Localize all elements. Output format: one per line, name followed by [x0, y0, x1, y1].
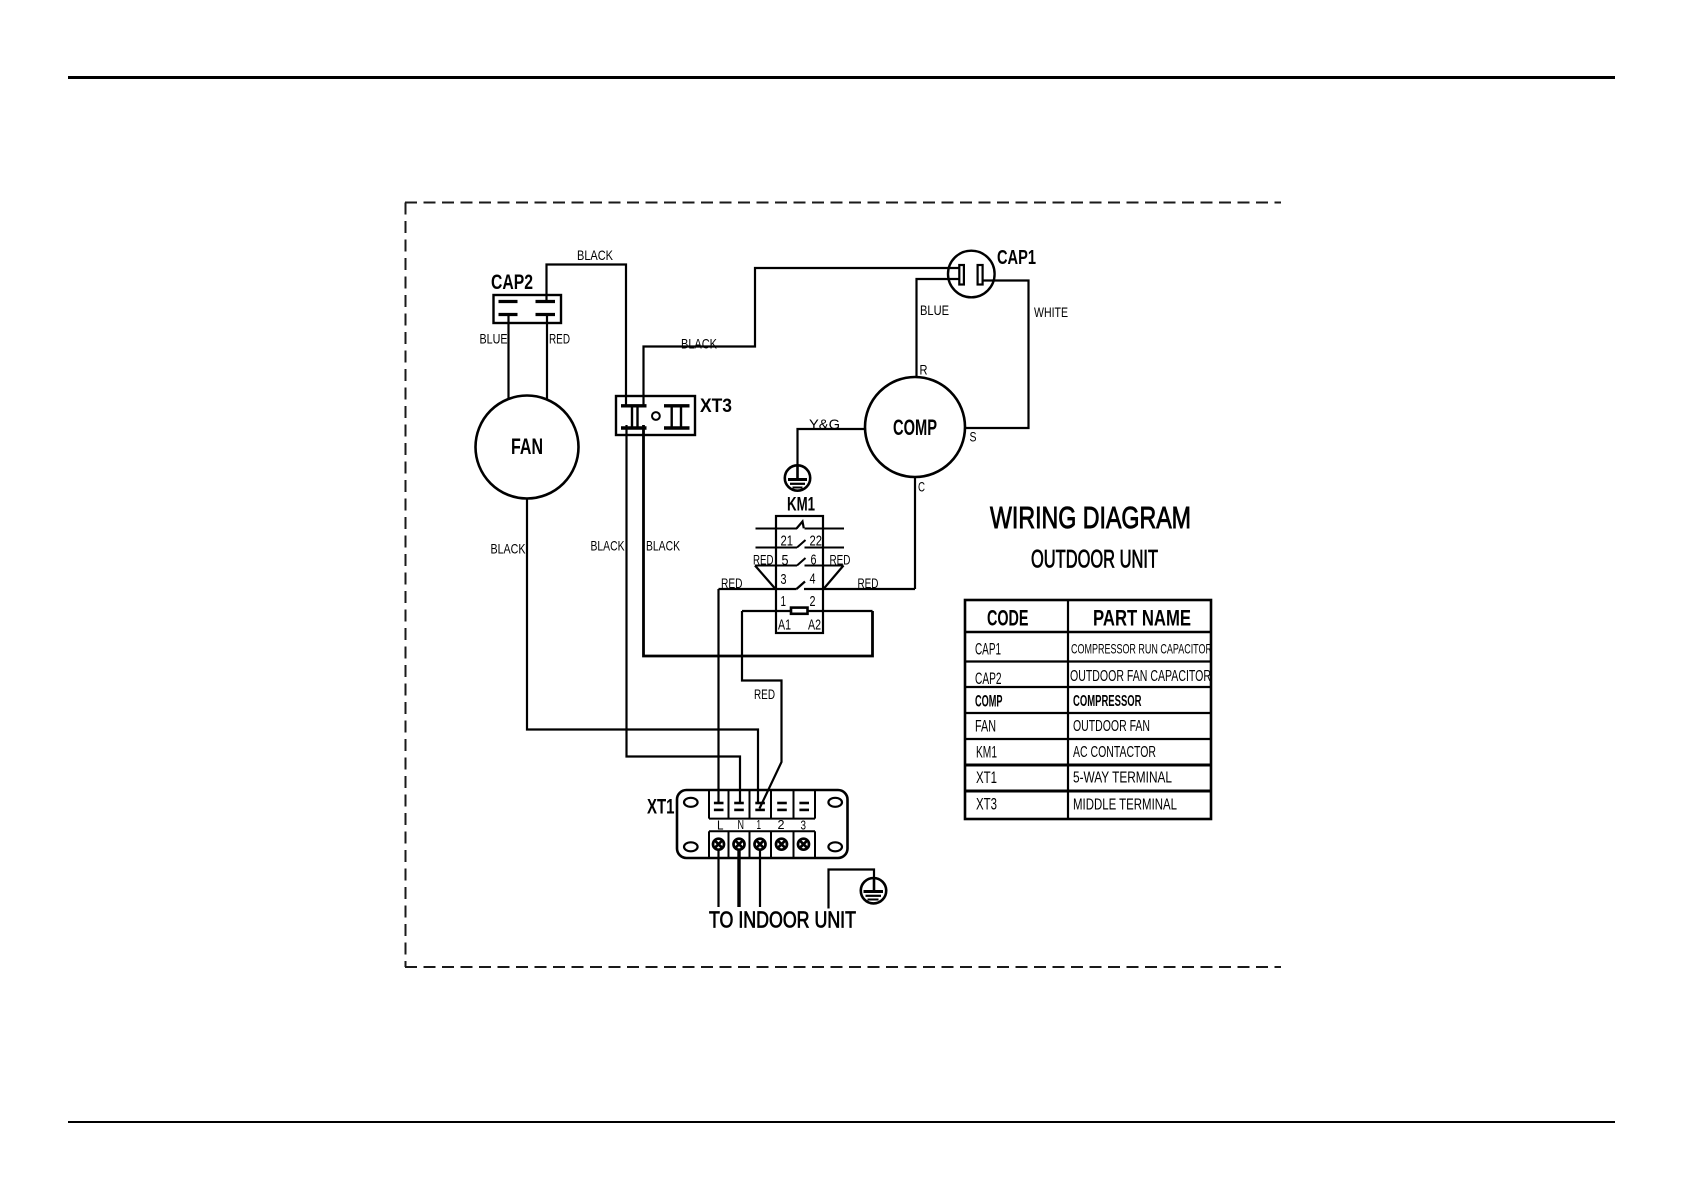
svg-text:BLACK: BLACK: [491, 541, 526, 557]
contactor KM1: [742, 516, 873, 634]
svg-text:XT1: XT1: [976, 768, 997, 787]
bottom cells: [708, 831, 710, 858]
bottom page rule: [68, 1121, 1615, 1123]
svg-text:CAP1: CAP1: [997, 247, 1036, 269]
wire BLACK: CAP2 right terminal up and over to XT3 left terminal: [547, 265, 627, 407]
terminal symbols (double bars) in XT1 cells: [714, 803, 809, 810]
wire BLACK: XT3 right bottom to KM1 coil A2: [644, 425, 873, 656]
screw terminals of XT1: [713, 839, 809, 850]
svg-text:XT3: XT3: [976, 795, 997, 814]
terminal labels L N 1 2 3: [717, 817, 806, 832]
svg-text:21: 21: [781, 533, 794, 550]
svg-text:A2: A2: [808, 618, 821, 634]
capacitor CAP1: [948, 251, 995, 298]
svg-text:BLACK: BLACK: [681, 336, 718, 352]
KM1 body: [776, 516, 823, 633]
svg-text:RED: RED: [830, 553, 851, 568]
svg-text:PART NAME: PART NAME: [1093, 606, 1191, 631]
motor FAN: [476, 396, 579, 499]
svg-text:1: 1: [781, 593, 787, 610]
ground (protective earth, near KM1): [785, 465, 810, 490]
svg-text:N: N: [738, 817, 745, 832]
contact 21-22 (NC, with peak blade): [756, 528, 798, 530]
terminal block XT1: [677, 790, 848, 858]
wire WHITE: CAP1 right terminal down to COMP S: [966, 281, 1029, 429]
svg-text:3: 3: [781, 571, 787, 588]
svg-text:L: L: [717, 817, 724, 832]
svg-text:RED: RED: [858, 576, 879, 591]
svg-text:FAN: FAN: [511, 434, 543, 459]
svg-text:COMPRESSOR RUN CAPACITOR: COMPRESSOR RUN CAPACITOR: [1071, 641, 1212, 657]
wire: down to XT1 terminal L: [717, 589, 719, 804]
svg-text:CAP2: CAP2: [975, 669, 1002, 688]
svg-text:2: 2: [778, 817, 785, 832]
wire: XT1 1 to indoor unit: [759, 851, 761, 908]
svg-text:1: 1: [757, 817, 762, 832]
svg-text:BLACK: BLACK: [577, 247, 614, 263]
svg-text:5-WAY TERMINAL: 5-WAY TERMINAL: [1073, 770, 1172, 787]
svg-text:RED: RED: [549, 331, 570, 347]
ground (indoor cable earth): [861, 878, 886, 903]
wire BLUE: CAP2 left terminal down to FAN: [507, 315, 509, 399]
wire: COMP C down to RED wire: [914, 478, 916, 590]
wire BLACK: XT3 left bottom to XT1 terminal N: [627, 425, 741, 804]
svg-text:MIDDLE TERMINAL: MIDDLE TERMINAL: [1073, 797, 1177, 814]
svg-text:BLACK: BLACK: [591, 538, 625, 554]
wire: diagonal 4 to RED bus: [824, 566, 844, 590]
terminal XT3: [616, 396, 695, 435]
svg-text:BLUE: BLUE: [920, 302, 949, 318]
svg-text:TO INDOOR UNIT: TO INDOOR UNIT: [709, 907, 856, 933]
svg-text:KM1: KM1: [976, 743, 997, 762]
svg-text:BLACK: BLACK: [646, 538, 680, 554]
label strip: [709, 818, 815, 820]
wire Y&G: COMP left to ground: [798, 429, 865, 466]
wire RED: XT1 L up through KM1 contact 1-2 to COMP C: [719, 588, 797, 590]
svg-text:COMP: COMP: [893, 415, 937, 440]
svg-text:KM1: KM1: [787, 495, 815, 516]
svg-text:CAP1: CAP1: [975, 640, 1001, 659]
svg-text:Y&G: Y&G: [809, 416, 840, 432]
contact 3-4: [755, 565, 797, 567]
svg-text:RED: RED: [753, 553, 774, 568]
wire RED: CAP2 right terminal down to FAN: [546, 315, 548, 400]
top page rule: [68, 76, 1615, 79]
svg-text:R: R: [920, 362, 928, 378]
svg-text:CAP2: CAP2: [491, 271, 533, 294]
outdoor unit boundary (dashed): [405, 203, 1281, 968]
capacitor CAP2: [494, 295, 562, 323]
svg-text:RED: RED: [754, 686, 775, 702]
contact 5-6: [756, 547, 798, 549]
svg-text:COMPRESSOR: COMPRESSOR: [1073, 693, 1142, 710]
wire BLUE: CAP1 left terminal down to COMP R: [917, 279, 960, 378]
svg-text:C: C: [918, 479, 925, 495]
svg-text:2: 2: [810, 593, 816, 610]
svg-text:XT1: XT1: [647, 796, 675, 819]
svg-text:S: S: [970, 429, 977, 445]
svg-text:BLUE: BLUE: [480, 331, 508, 347]
svg-text:COMP: COMP: [975, 692, 1003, 711]
svg-text:4: 4: [810, 571, 816, 588]
svg-text:CODE: CODE: [987, 606, 1029, 631]
svg-text:WHITE: WHITE: [1034, 304, 1068, 320]
wire: XT1 L to indoor unit: [717, 851, 719, 908]
svg-text:OUTDOOR UNIT: OUTDOOR UNIT: [1031, 546, 1158, 574]
svg-text:OUTDOOR FAN: OUTDOOR FAN: [1073, 718, 1150, 735]
wire BLACK: FAN bottom to XT1 terminal 1: [527, 499, 758, 804]
svg-text:22: 22: [810, 533, 823, 550]
top cells: [708, 790, 710, 819]
svg-text:A1: A1: [778, 618, 791, 634]
contact blade 1-2: [797, 582, 806, 590]
svg-text:6: 6: [811, 552, 817, 569]
wire RED: KM1 coil A1 to XT1 terminal 1: [742, 611, 782, 809]
mounting holes of XT1: [684, 798, 842, 852]
svg-text:FAN: FAN: [975, 717, 996, 736]
compressor COMP: [865, 377, 965, 477]
coil A1-A2: [742, 610, 791, 612]
svg-text:OUTDOOR FAN CAPACITOR: OUTDOOR FAN CAPACITOR: [1070, 668, 1211, 685]
svg-text:WIRING DIAGRAM: WIRING DIAGRAM: [990, 500, 1191, 535]
svg-text:5: 5: [782, 552, 789, 569]
wire: XT1 N to indoor unit (thick): [737, 851, 740, 908]
wire BLACK: XT3 to CAP1 left terminal: [644, 268, 960, 406]
svg-text:3: 3: [801, 817, 807, 832]
svg-text:RED: RED: [721, 576, 743, 591]
wire: diagonal 3 to RED bus: [755, 566, 776, 590]
svg-text:XT3: XT3: [700, 396, 732, 417]
svg-text:AC CONTACTOR: AC CONTACTOR: [1073, 744, 1156, 761]
wire: earth of indoor cable: [829, 870, 875, 909]
parts table: [965, 600, 1212, 819]
